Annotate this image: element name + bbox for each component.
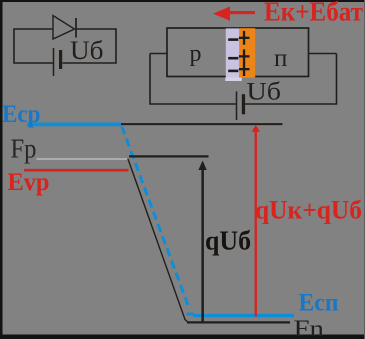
label n region bbox=[274, 45, 287, 72]
label p region bbox=[190, 41, 202, 67]
svg-text:Evp: Evp bbox=[8, 169, 50, 196]
valence band slope (black) bbox=[128, 159, 188, 323]
border frame right bbox=[364, 0, 365, 339]
svg-text:qUб: qUб bbox=[205, 226, 251, 256]
battery B2 thin plate bbox=[236, 91, 238, 120]
Fp Fermi level line (light gray) bbox=[37, 158, 130, 160]
red arrow Ек+Ебат (points left) bbox=[213, 7, 255, 21]
Ecp level extension line (black) bbox=[121, 123, 283, 125]
label Uб of battery B1 bbox=[70, 36, 104, 65]
wire stub right of box bbox=[309, 53, 337, 55]
border frame top bbox=[0, 0, 365, 2]
svg-text:Fp: Fp bbox=[11, 134, 37, 164]
svg-text:Ек+Ебат: Ек+Ебат bbox=[264, 0, 363, 27]
conduction band slope (blue dashed) bbox=[122, 127, 189, 307]
battery B2 thick plate bbox=[242, 94, 245, 114]
wire right vertical to battery bbox=[245, 54, 337, 105]
label qUб bbox=[205, 226, 251, 256]
battery B1 thin plate bbox=[53, 48, 55, 76]
svg-text:Еср: Еср bbox=[2, 101, 41, 128]
Ecp conduction band level line (blue) bbox=[27, 123, 122, 127]
svg-text:Fn: Fn bbox=[294, 316, 325, 339]
wire stub left of box bbox=[150, 53, 167, 55]
Fp level extension line (black) bbox=[129, 155, 209, 157]
depletion layer positive (orange) strip bbox=[239, 28, 255, 77]
label qUк+qUб bbox=[255, 195, 362, 224]
Fn Fermi level line (black) bbox=[187, 321, 290, 323]
p-n junction box bbox=[167, 28, 309, 77]
arrow qUк+qUб (red, up) bbox=[252, 125, 261, 317]
border frame left bbox=[0, 0, 3, 339]
label Есп bbox=[299, 289, 339, 316]
svg-text:Есп: Есп bbox=[299, 289, 339, 316]
Evp valence band level line (red) bbox=[24, 169, 129, 172]
depletion layer negative (lavender) strip bbox=[225, 28, 242, 81]
label Uб of battery B2 bbox=[247, 79, 282, 106]
svg-text:Uб: Uб bbox=[247, 79, 282, 106]
label Fn bbox=[294, 316, 325, 339]
Ecn conduction band level line (blue) bbox=[193, 314, 294, 317]
minus charges bbox=[228, 38, 238, 72]
diode D (triangle anode) bbox=[53, 16, 75, 40]
diode cathode bar bbox=[75, 18, 77, 38]
svg-text:п: п bbox=[274, 45, 287, 72]
arrow qUб (black, up) bbox=[198, 161, 206, 323]
svg-text:Uб: Uб bbox=[70, 36, 104, 65]
label Ек+Ебат bbox=[264, 0, 363, 27]
svg-text:р: р bbox=[190, 41, 202, 67]
blue dash elbow at bottom bbox=[187, 313, 195, 316]
plus charges bbox=[239, 31, 250, 76]
label Fp bbox=[11, 134, 37, 164]
border frame bottom bbox=[0, 335, 365, 339]
label Еср bbox=[2, 101, 41, 128]
label Evр bbox=[8, 169, 50, 196]
wire loop of diode circuit bbox=[14, 29, 116, 63]
battery B1 thick plate bbox=[59, 50, 62, 69]
wire left vertical to battery bbox=[150, 54, 237, 105]
svg-text:qUк+qUб: qUк+qUб bbox=[255, 195, 362, 224]
